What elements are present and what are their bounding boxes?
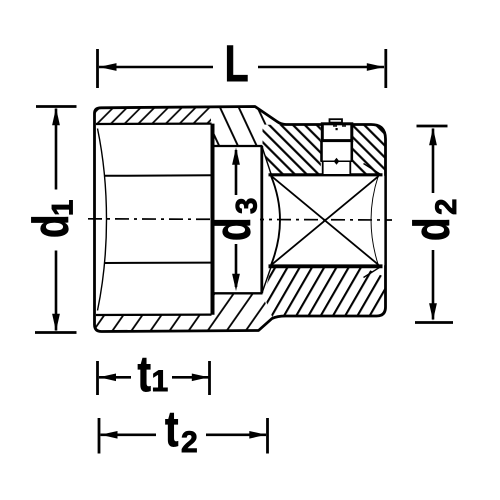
dimension d3 arrow up (232, 148, 240, 165)
svg-text:d: d (204, 218, 261, 241)
dimension d1 arrow down (52, 314, 60, 332)
hatch region B: left bottom band + below bore (96, 293, 272, 331)
square cavity left concave arc (271, 176, 280, 265)
right face chamfer line bottom (364, 267, 381, 278)
svg-text:1: 1 (152, 365, 169, 398)
pin hole lower segment walls (323, 160, 351, 174)
hatch region A: left top band (96, 108, 211, 125)
svg-text:t: t (138, 346, 151, 402)
d3 bore bottom edge (214, 292, 263, 294)
dimension d2 arrow up (429, 128, 437, 146)
dimension L line right segment (258, 66, 384, 69)
dimension t1 arrow right (192, 374, 209, 382)
dimension t2 extension line right (266, 418, 269, 454)
hatch region E2: right top wall right of pin (353, 125, 386, 174)
dimension t2 arrow right (249, 431, 266, 439)
dimension t2 line right segment (206, 433, 266, 436)
square diagonal X line 2 (272, 176, 379, 265)
centerline dash-dot (88, 219, 392, 220)
dimension d2 extension line top (417, 125, 448, 128)
socket body outer outline (95, 107, 386, 332)
dimension d2 line upper segment (432, 129, 435, 194)
dimension d2 arrow down (429, 303, 437, 320)
label d1 (22, 200, 80, 238)
dimension t1 line right segment (172, 376, 209, 379)
pin cap (322, 119, 352, 140)
dimension t1 arrow left (99, 374, 116, 382)
svg-text:1: 1 (47, 200, 80, 216)
dimension t2 arrow left (101, 431, 118, 439)
bore-to-square chamfer top (262, 147, 271, 175)
white-out outside top-right corner (370, 123, 387, 139)
dimension d3 line upper segment (235, 150, 238, 195)
dimension t1 extension line right (208, 361, 211, 395)
hatch region C: below square (264, 268, 385, 318)
dimension t2 line left segment (101, 433, 157, 436)
square cavity bottom thick line (269, 264, 383, 268)
svg-text:d: d (403, 218, 460, 241)
svg-text:d: d (22, 215, 79, 238)
right face chamfer line top (364, 164, 381, 175)
square cavity top thick line (269, 173, 383, 176)
d3 bore right edge (260, 146, 263, 293)
dimension d1 line lower segment (55, 251, 58, 331)
hex cavity (white) (96, 125, 211, 315)
hex inner end wall line (211, 124, 215, 315)
hex cavity bottom line (96, 314, 212, 317)
hex facet line upper (104, 174, 212, 177)
label t2 (165, 401, 198, 459)
svg-text:2: 2 (430, 199, 463, 215)
right face white strip (372, 176, 385, 265)
dimension L extension line left (96, 49, 99, 88)
dimension d2 line lower segment (432, 250, 435, 320)
dimension d1 extension line bottom (35, 331, 77, 334)
svg-text:3: 3 (231, 198, 264, 214)
dimension d3 line lower segment (235, 244, 238, 287)
dimension L line left segment (99, 66, 213, 69)
dimension d1 arrow up (52, 108, 60, 126)
hatch region D: above bore strip (211, 107, 286, 146)
dimension d3 arrow down (232, 274, 240, 291)
label d3 background (215, 193, 260, 241)
dimension d2 extension line bottom (415, 321, 453, 324)
d3 bore top edge (214, 145, 263, 147)
square diagonal X line 1 (272, 176, 379, 265)
label t1 (138, 346, 169, 402)
hex facet line lower (104, 262, 212, 264)
square drive cavity white (271, 176, 379, 265)
dimension d1 extension line top (36, 105, 77, 108)
label d3 (204, 198, 264, 241)
square cavity right concave arc (372, 176, 379, 265)
hatch region E1: right top wall left of pin (263, 125, 321, 174)
dimension d1 line upper segment (55, 109, 58, 190)
bore-to-square chamfer bottom (262, 267, 271, 294)
svg-text:L: L (225, 35, 249, 92)
label d2 (403, 199, 463, 241)
dimension t2 extension line left (98, 418, 101, 454)
svg-text:2: 2 (181, 426, 198, 459)
hex cavity top line (96, 122, 212, 125)
hex entry chamfer arc (98, 129, 107, 311)
dimension L arrow right (367, 63, 385, 71)
pin shaft upper segment (321, 141, 354, 165)
dimension L arrow left (99, 63, 117, 71)
dimension L extension line right (384, 49, 387, 88)
dimension t1 line left segment (99, 376, 131, 379)
dimension t1 extension line left (96, 361, 99, 395)
svg-text:t: t (165, 401, 178, 457)
